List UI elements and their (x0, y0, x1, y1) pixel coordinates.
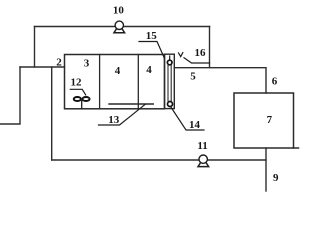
wire top-left riser (34, 27, 36, 68)
wire left branch down (0, 67, 20, 124)
baffle 13 (99, 104, 154, 126)
svg-text:4: 4 (146, 64, 152, 76)
wire divider 1 (99, 55, 101, 109)
svg-text:9: 9 (273, 172, 279, 184)
svg-text:3: 3 (84, 58, 90, 70)
svg-text:2: 2 (56, 57, 62, 69)
node label 16 leader (179, 47, 210, 63)
node label 15 leader (139, 30, 164, 58)
svg-text:4: 4 (115, 65, 121, 77)
aerator 12 (70, 77, 89, 109)
wire top-right downcomer (209, 27, 211, 68)
svg-text:15: 15 (146, 30, 158, 42)
svg-text:16: 16 (195, 47, 207, 59)
svg-text:6: 6 (272, 76, 278, 88)
tank main box (65, 55, 165, 109)
svg-text:12: 12 (71, 77, 83, 89)
wire inlet header (20, 66, 65, 68)
svg-text:13: 13 (108, 114, 120, 126)
wire recycle branch down (51, 67, 53, 160)
pump 11 (197, 140, 208, 167)
wire top pipe horizontal (35, 26, 210, 28)
wire bottom pipe (52, 159, 266, 161)
wire tank 7 outlet down (265, 148, 267, 191)
wire divider 2 (137, 55, 139, 109)
svg-text:14: 14 (189, 119, 201, 131)
column 15 vessel (165, 54, 175, 108)
svg-text:11: 11 (197, 140, 207, 152)
node label 14 leader (171, 107, 205, 132)
svg-text:5: 5 (190, 71, 196, 83)
wire pipe 5 to tank 7 (174, 68, 266, 93)
svg-text:7: 7 (267, 114, 273, 126)
pump 10 (113, 5, 125, 33)
tank 7 box (234, 93, 299, 148)
svg-text:10: 10 (113, 5, 125, 17)
